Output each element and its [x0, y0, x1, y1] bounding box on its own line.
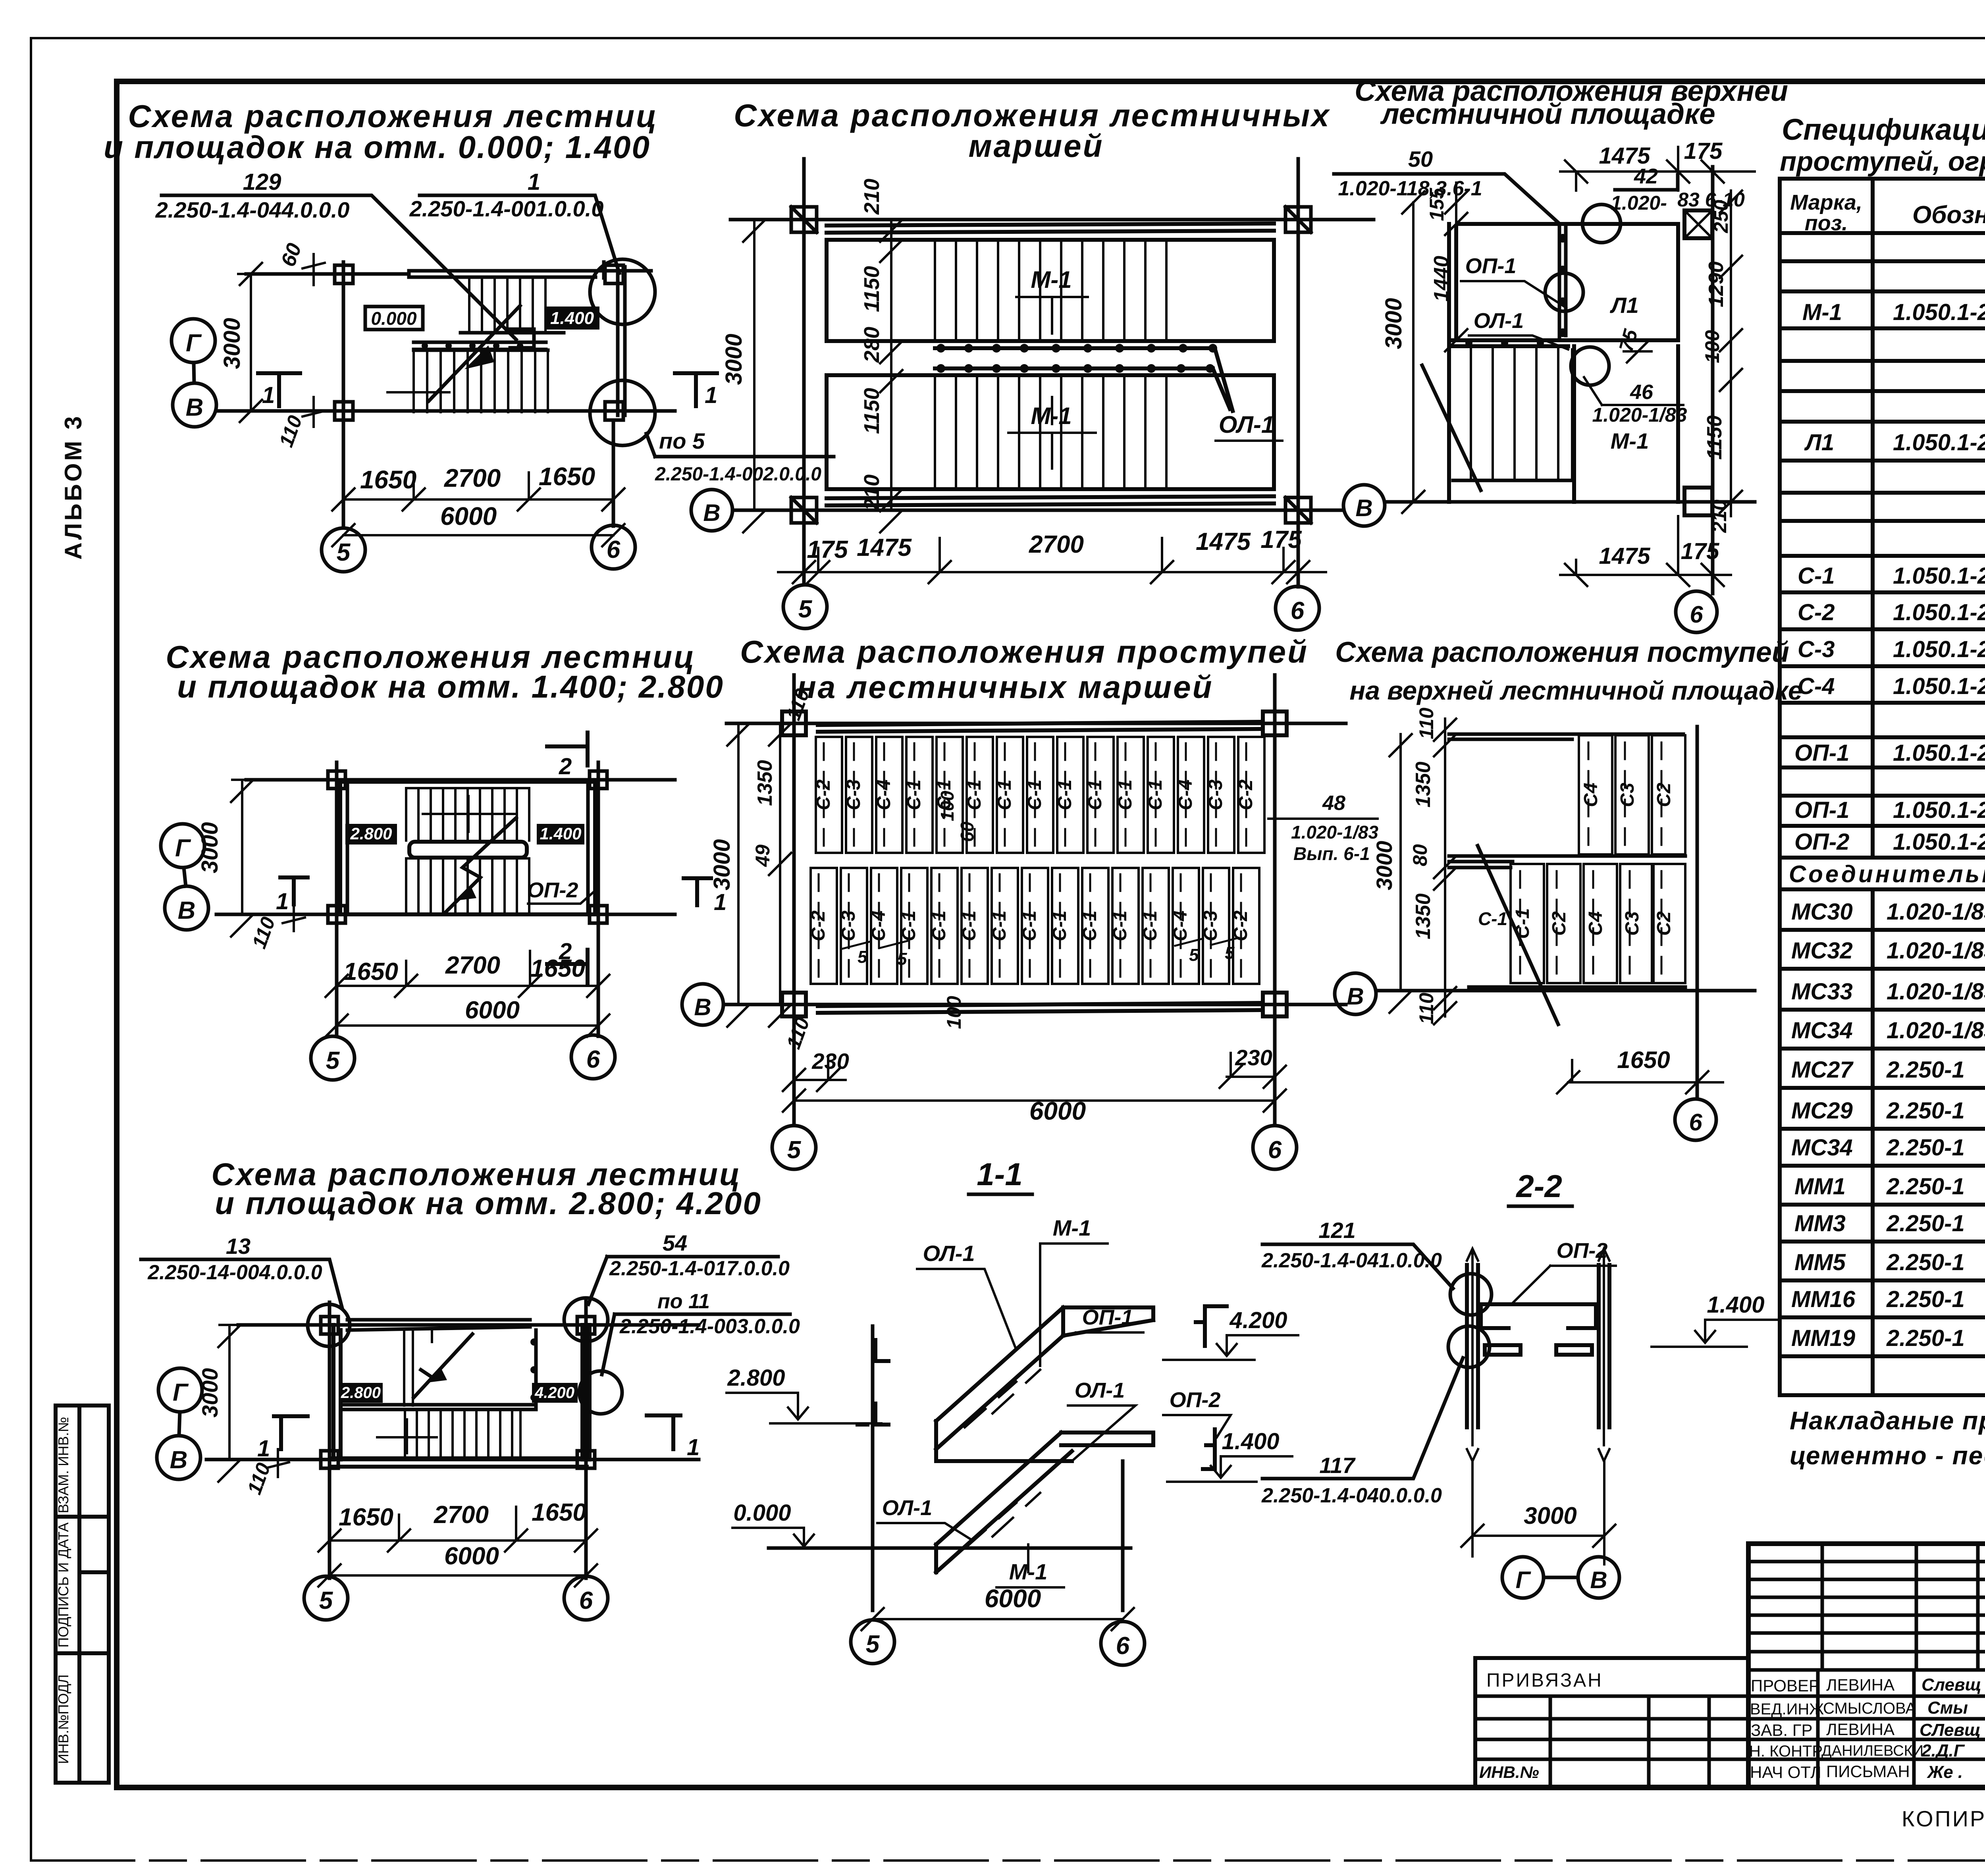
- svg-text:В: В: [1347, 983, 1364, 1010]
- row M-1: [1802, 299, 1985, 325]
- upper march outline: [827, 240, 1274, 341]
- row C-1: [1798, 563, 1985, 589]
- axis G line: [238, 1323, 699, 1327]
- svg-text:С-3: С-3: [1205, 779, 1226, 810]
- stamp top section columns: [1822, 1544, 1985, 1787]
- svg-text:ВЕД.ИНЖ: ВЕД.ИНЖ: [1750, 1701, 1824, 1718]
- svg-text:маршей: маршей: [968, 128, 1104, 164]
- mid landing bracket: [1203, 1429, 1215, 1469]
- column bottom-left: [328, 906, 345, 923]
- column bottom-right: [1684, 488, 1712, 515]
- svg-text:ЛЕВИНА: ЛЕВИНА: [1826, 1720, 1894, 1739]
- axis B vertical: [1711, 167, 1715, 594]
- row MC29: [1791, 1095, 1985, 1124]
- row MC34b: [1791, 1132, 1985, 1161]
- upper arrow diagonal: [414, 1334, 472, 1398]
- svg-text:ОП-2: ОП-2: [1557, 1239, 1608, 1263]
- axis V line: [727, 1003, 1346, 1006]
- axis circle 6: [571, 1035, 615, 1079]
- column bottom-left: [335, 402, 353, 420]
- axis V line: [734, 509, 1344, 512]
- platform inner edge: [1559, 226, 1566, 337]
- svg-text:Г: Г: [1516, 1567, 1532, 1593]
- svg-text:и площадок на отм. 0.000; 1.4: и площадок на отм. 0.000; 1.400: [104, 129, 651, 165]
- svg-text:1650: 1650: [360, 465, 416, 494]
- platform outline: [1449, 224, 1678, 502]
- svg-text:Схема расположения лестниц: Схема расположения лестниц: [128, 98, 658, 134]
- axis 5 vertical: [871, 1326, 875, 1610]
- svg-text:2.250-14-004.0.0.0: 2.250-14-004.0.0.0: [147, 1261, 322, 1284]
- svg-text:1: 1: [528, 169, 540, 195]
- svg-text:С-1: С-1: [898, 910, 919, 941]
- row MM5: [1794, 1247, 1985, 1275]
- left wall inner line: [346, 782, 349, 914]
- column bottom-right: [577, 1451, 595, 1468]
- svg-text:В: В: [694, 994, 711, 1020]
- svg-text:МС29: МС29: [1791, 1098, 1853, 1124]
- axis circle 6: [1675, 1099, 1716, 1140]
- svg-text:210: 210: [860, 179, 884, 215]
- svg-text:5: 5: [1189, 945, 1199, 965]
- axis V line: [1386, 500, 1755, 504]
- svg-text:6000: 6000: [985, 1584, 1041, 1613]
- axis circle G: [161, 824, 204, 868]
- left dim line: [769, 723, 791, 1027]
- svg-text:5: 5: [337, 539, 351, 566]
- axis circle V left: [691, 490, 732, 531]
- svg-text:цементно - песчаного раствора: цементно - песчаного раствора марки 100.: [1790, 1441, 1985, 1470]
- column top-right: [1263, 711, 1287, 735]
- svg-text:1650: 1650: [539, 462, 595, 491]
- axis circle 5: [851, 1620, 894, 1664]
- svg-text:5: 5: [1225, 943, 1235, 963]
- bottom edge: [1469, 985, 1685, 989]
- svg-text:250: 250: [1710, 200, 1732, 233]
- svg-text:ОЛ-1: ОЛ-1: [882, 1496, 932, 1520]
- plan outline: [340, 782, 595, 914]
- svg-text:С-4: С-4: [1170, 910, 1191, 941]
- svg-text:1.020-1/83 Вып.7-1: 1.020-1/83 Вып.7-1: [1887, 938, 1985, 964]
- axis circle G: [158, 1368, 202, 1412]
- left bracket top: [875, 1340, 888, 1361]
- svg-text:С-1: С-1: [1019, 910, 1040, 941]
- upper march planks: [816, 737, 842, 853]
- svg-text:2.250-1: 2.250-1: [1886, 1098, 1965, 1124]
- svg-text:С-1: С-1: [1079, 910, 1100, 941]
- column bottom-right: [1263, 993, 1287, 1016]
- privyazan table: [1475, 1658, 1748, 1787]
- svg-text:1.020-1/83 Вып.7-1: 1.020-1/83 Вып.7-1: [1887, 979, 1985, 1005]
- svg-text:1650: 1650: [532, 1499, 586, 1526]
- svg-text:4.200: 4.200: [534, 1384, 574, 1402]
- svg-text:6000: 6000: [465, 997, 520, 1024]
- top landing slab: [1063, 1307, 1153, 1336]
- column top-left: [321, 1317, 338, 1334]
- lower march treads: [935, 375, 1166, 489]
- svg-text:Схема расположения поступей: Схема расположения поступей: [1335, 636, 1789, 668]
- guard dots on platform: [1465, 234, 1567, 347]
- svg-text:С2: С2: [1654, 783, 1675, 807]
- svg-text:50: 50: [1408, 147, 1433, 172]
- svg-text:210: 210: [860, 474, 884, 511]
- svg-text:80: 80: [1409, 844, 1431, 866]
- svg-text:ОЛ-1: ОЛ-1: [1219, 411, 1274, 438]
- svg-text:Слевщ: Слевщ: [1921, 1675, 1981, 1695]
- axis G line: [246, 272, 409, 276]
- svg-text:1.400: 1.400: [540, 824, 581, 843]
- upper march treads: [935, 240, 1166, 341]
- lower flight treads: [414, 350, 548, 412]
- flight bottom edge: [1453, 479, 1572, 482]
- svg-text:лестничной площадке: лестничной площадке: [1380, 98, 1715, 130]
- signers rows: [1748, 1696, 1985, 1759]
- svg-text:1: 1: [705, 382, 717, 408]
- axis 5 vertical: [328, 1302, 331, 1578]
- upper mid tick lines: [423, 796, 516, 832]
- dim 3000 vertical: [231, 780, 272, 937]
- svg-text:49: 49: [752, 844, 774, 867]
- svg-text:100: 100: [937, 791, 958, 821]
- right dim line: [1720, 191, 1742, 516]
- svg-text:Г: Г: [186, 330, 202, 357]
- column bottom-right: [1285, 494, 1311, 526]
- svg-text:М-1: М-1: [1031, 266, 1072, 293]
- axis G line: [730, 218, 1374, 222]
- svg-text:М-1: М-1: [1611, 428, 1649, 453]
- upper flight slab: [936, 1307, 1063, 1449]
- bottom beam double line: [331, 1458, 587, 1467]
- svg-text:С-1: С-1: [1140, 910, 1161, 941]
- row MM16: [1791, 1284, 1985, 1312]
- svg-text:2-2: 2-2: [1515, 1168, 1562, 1204]
- lower march labels: [808, 910, 1251, 941]
- upper partial flight: [404, 1330, 432, 1406]
- mid landing edges: [414, 342, 546, 349]
- svg-text:М-1: М-1: [1802, 299, 1842, 325]
- mid landing lines: [341, 1405, 536, 1409]
- axis G line: [727, 722, 1346, 725]
- lower plank group: [1511, 864, 1544, 983]
- svg-text:С2: С2: [1654, 911, 1675, 936]
- svg-text:2.250-1: 2.250-1: [1886, 1249, 1965, 1275]
- svg-text:6: 6: [1690, 601, 1703, 628]
- svg-text:1: 1: [257, 1436, 270, 1461]
- svg-text:ОП-1: ОП-1: [1465, 254, 1517, 278]
- svg-text:С-1: С-1: [1054, 779, 1075, 810]
- svg-text:Н. КОНТР: Н. КОНТР: [1749, 1743, 1823, 1760]
- table grid verticals: [1780, 179, 1985, 1395]
- axis 6 vertical: [1297, 159, 1300, 587]
- left dim line: [1445, 183, 1467, 351]
- row MC27: [1791, 1055, 1985, 1083]
- svg-text:В: В: [186, 394, 204, 421]
- svg-text:1350: 1350: [1412, 762, 1435, 808]
- column top-right: [577, 1317, 595, 1334]
- svg-text:1.020-: 1.020-: [1611, 192, 1667, 214]
- axis circle 5: [322, 528, 365, 572]
- upper flight dashes: [965, 1370, 1040, 1427]
- svg-text:6: 6: [579, 1587, 593, 1614]
- treads lower: [406, 858, 529, 913]
- svg-text:МС30: МС30: [1791, 899, 1853, 925]
- svg-text:С-1: С-1: [1024, 779, 1045, 810]
- level label 1.400: [545, 307, 599, 330]
- axis V line: [216, 913, 675, 916]
- svg-text:С-2: С-2: [813, 779, 834, 810]
- svg-text:2.250-1: 2.250-1: [1886, 1135, 1965, 1161]
- svg-text:2.250-1.4-002.0.0.0: 2.250-1.4-002.0.0.0: [655, 464, 821, 485]
- section mark 1 left: [258, 373, 300, 406]
- axis circle V: [157, 1436, 200, 1479]
- svg-text:С-2: С-2: [1230, 910, 1251, 941]
- row MM3: [1794, 1208, 1985, 1236]
- stamp outer: [1748, 1544, 1985, 1787]
- treads upper: [406, 788, 529, 841]
- svg-text:1.050.1-2: 1.050.1-2: [1893, 673, 1985, 699]
- svg-text:ПОДПИСЬ И ДАТА: ПОДПИСЬ И ДАТА: [55, 1522, 71, 1647]
- svg-text:60: 60: [957, 821, 977, 842]
- svg-text:С-1: С-1: [1512, 908, 1533, 939]
- column top-left: [782, 711, 806, 735]
- axis 6 vertical: [604, 262, 613, 526]
- svg-text:1475: 1475: [1599, 143, 1650, 169]
- lower march planks: [811, 868, 837, 984]
- svg-text:1.400: 1.400: [1707, 1292, 1764, 1318]
- handrail end loop: [510, 329, 534, 348]
- top floor edge line: [827, 224, 1274, 233]
- svg-text:Накладаные проступи укладыва: Накладаные проступи укладываются по слою: [1790, 1406, 1985, 1435]
- svg-text:121: 121: [1318, 1218, 1355, 1243]
- svg-text:2.250-1: 2.250-1: [1886, 1211, 1965, 1236]
- axis circle connector: [179, 1412, 180, 1436]
- svg-text:С-4: С-4: [873, 779, 894, 810]
- svg-text:С3: С3: [1622, 911, 1643, 936]
- axis circle V: [173, 383, 216, 427]
- svg-text:3000: 3000: [1372, 841, 1397, 891]
- column bottom-right: [590, 906, 607, 923]
- svg-text:6000: 6000: [444, 1542, 499, 1570]
- bottom dim line: [1560, 516, 1731, 586]
- svg-text:ОЛ-1: ОЛ-1: [1474, 309, 1524, 333]
- axis circle 6: [1253, 1126, 1297, 1169]
- column top-right: [590, 771, 607, 789]
- right post arrows: [1599, 1249, 1609, 1461]
- svg-text:В: В: [703, 499, 720, 526]
- outer border bottom dashed: [31, 1859, 1985, 1862]
- lower plank labels: [1512, 908, 1675, 939]
- svg-text:175: 175: [1684, 138, 1723, 164]
- svg-text:230: 230: [811, 1049, 849, 1074]
- axis circle 5: [783, 585, 827, 629]
- svg-text:1475: 1475: [857, 534, 912, 561]
- svg-text:ЗАВ. ГР: ЗАВ. ГР: [1751, 1721, 1813, 1739]
- svg-text:3000: 3000: [197, 822, 223, 873]
- svg-text:С-1: С-1: [1478, 908, 1507, 929]
- top floor edge: [818, 722, 1262, 732]
- railing dots row1: [937, 344, 1217, 353]
- svg-text:1.020-1/83 Вып.7-1: 1.020-1/83 Вып.7-1: [1887, 1018, 1985, 1043]
- svg-text:на лестничных маршей: на лестничных маршей: [797, 669, 1213, 705]
- left margin stamp boxes: [56, 1406, 109, 1783]
- axis circle V: [165, 886, 208, 930]
- svg-text:СМЫСЛОВА: СМЫСЛОВА: [1823, 1700, 1916, 1717]
- svg-text:110: 110: [1415, 708, 1438, 739]
- row OP-1 OP12: [1794, 797, 1985, 823]
- svg-text:1.050.1-2: 1.050.1-2: [1893, 430, 1985, 455]
- detail circle lower: [1448, 1326, 1490, 1367]
- svg-text:С-1: С-1: [994, 779, 1015, 810]
- right wall inner line: [586, 782, 590, 914]
- svg-text:3000: 3000: [721, 334, 747, 385]
- svg-text:2700: 2700: [444, 464, 501, 492]
- svg-text:ММ19: ММ19: [1791, 1325, 1855, 1351]
- axis circle 5: [772, 1126, 816, 1169]
- svg-text:13: 13: [226, 1234, 251, 1259]
- svg-text:МС34: МС34: [1791, 1135, 1853, 1161]
- svg-text:0.000: 0.000: [733, 1500, 791, 1526]
- row C-2: [1798, 600, 1985, 625]
- svg-text:ПРОВЕР: ПРОВЕР: [1751, 1676, 1820, 1695]
- svg-text:Г: Г: [175, 835, 191, 862]
- svg-text:1.050.1-2: 1.050.1-2: [1893, 797, 1985, 823]
- svg-text:5: 5: [787, 1136, 802, 1164]
- svg-text:СЛевщ: СЛевщ: [1919, 1720, 1981, 1740]
- svg-text:6: 6: [1268, 1136, 1282, 1164]
- row C-3: [1798, 636, 1985, 662]
- section mark 2 bottom: [547, 950, 588, 983]
- svg-text:С3: С3: [1617, 783, 1638, 807]
- svg-text:по 11: по 11: [657, 1290, 710, 1313]
- svg-text:1-1: 1-1: [977, 1157, 1023, 1192]
- axis 6 vertical: [584, 1298, 588, 1578]
- svg-text:Смы: Смы: [1927, 1698, 1968, 1718]
- svg-text:2.800: 2.800: [350, 824, 392, 843]
- section mark 2 top: [547, 733, 588, 765]
- svg-text:С-1: С-1: [904, 779, 925, 810]
- ground line: [769, 1546, 1131, 1550]
- svg-text:3000: 3000: [219, 318, 245, 369]
- svg-text:129: 129: [243, 169, 281, 195]
- level label 1.400: [537, 824, 584, 844]
- inner right wall line: [534, 1330, 538, 1407]
- svg-text:1475: 1475: [1599, 543, 1650, 569]
- section mark 1 left: [274, 1416, 308, 1449]
- dim 3000 left: [727, 723, 750, 1027]
- axis B vertical: [1696, 727, 1699, 1098]
- column top-right with detail circle: [605, 265, 623, 283]
- svg-text:2700: 2700: [1029, 531, 1084, 558]
- svg-text:1.050.1-2: 1.050.1-2: [1893, 600, 1985, 625]
- axis circle 6: [564, 1576, 608, 1620]
- slab: [1481, 1304, 1596, 1328]
- svg-text:6: 6: [1689, 1109, 1702, 1136]
- svg-text:54: 54: [663, 1230, 687, 1255]
- svg-text:С-1: С-1: [1110, 910, 1131, 941]
- svg-text:1: 1: [262, 382, 275, 408]
- section mark 1 right: [647, 1415, 680, 1449]
- axis V line: [216, 409, 675, 413]
- svg-text:ОЛ-1: ОЛ-1: [923, 1241, 975, 1266]
- svg-text:1.020-1/83 Вып.7-1: 1.020-1/83 Вып.7-1: [1887, 899, 1985, 925]
- svg-text:1.050.1-2: 1.050.1-2: [1893, 299, 1985, 325]
- table grid horizontals: [1780, 179, 1985, 1395]
- svg-text:С-1: С-1: [1145, 779, 1166, 810]
- axis circle connector: [194, 362, 194, 383]
- svg-text:Схема расположения лестничных: Схема расположения лестничных: [734, 98, 1330, 133]
- axis V line: [206, 1458, 699, 1461]
- svg-text:210: 210: [1708, 499, 1731, 533]
- signatures: [1919, 1675, 1981, 1782]
- axis circle 5: [311, 1036, 355, 1080]
- svg-text:1150: 1150: [1703, 415, 1726, 460]
- axis circle V: [1578, 1557, 1619, 1598]
- svg-text:1: 1: [714, 889, 727, 915]
- dots right wall: [530, 1338, 538, 1401]
- row OP-1 OM14: [1794, 738, 1985, 766]
- svg-text:2.250-1.4-017.0.0.0: 2.250-1.4-017.0.0.0: [609, 1257, 790, 1280]
- svg-text:ММ3: ММ3: [1794, 1211, 1846, 1236]
- axis circle 6: [1676, 591, 1717, 632]
- svg-text:Вып. 6-1: Вып. 6-1: [1293, 843, 1370, 864]
- svg-text:МС32: МС32: [1791, 938, 1853, 964]
- svg-text:1.020-1/83: 1.020-1/83: [1291, 822, 1378, 843]
- axis circle 6: [1101, 1621, 1145, 1665]
- svg-text:1.400: 1.400: [550, 308, 594, 328]
- svg-text:и площадок на отм. 2.800; 4.2: и площадок на отм. 2.800; 4.200: [215, 1186, 762, 1221]
- svg-text:С-1: С-1: [1798, 563, 1835, 589]
- svg-text:1150: 1150: [860, 388, 884, 434]
- svg-text:48: 48: [1322, 792, 1345, 815]
- axis G line: [246, 778, 675, 782]
- detail circle top-left: [308, 1304, 350, 1346]
- upper flight treads: [469, 278, 545, 333]
- mid landing dots: [422, 343, 523, 349]
- svg-text:Соединительные элементы лест: Соединительные элементы лестницы: [1789, 861, 1985, 887]
- circle connector: [1544, 1576, 1578, 1579]
- column top-right: [1282, 204, 1314, 235]
- svg-text:2.250-1: 2.250-1: [1886, 1286, 1965, 1312]
- svg-text:С-3: С-3: [843, 779, 864, 810]
- detail circle right-mid: [579, 1371, 622, 1414]
- svg-text:ОП-2: ОП-2: [1794, 829, 1849, 855]
- upper plank labels: [1580, 783, 1675, 807]
- svg-text:2.250-1.4-041.0.0.0: 2.250-1.4-041.0.0.0: [1261, 1249, 1442, 1272]
- row MC33: [1791, 976, 1985, 1005]
- svg-text:175: 175: [1260, 526, 1302, 553]
- axis 6 vertical: [1273, 675, 1277, 1126]
- top landing bracket: [1196, 1306, 1227, 1346]
- svg-text:Же .: Же .: [1927, 1762, 1963, 1782]
- svg-text:проступей, ограждений и соедин: проступей, ограждений и соединительных д…: [1780, 146, 1985, 177]
- axis 5 vertical: [342, 262, 345, 528]
- flight right edge: [1574, 346, 1678, 502]
- dim 3000 left: [1389, 734, 1412, 1013]
- section mark 1 right: [675, 373, 717, 406]
- svg-text:ММ16: ММ16: [1791, 1286, 1856, 1312]
- detail circle mid: [1545, 273, 1583, 311]
- svg-text:1350: 1350: [1412, 893, 1435, 939]
- svg-text:Обозначение: Обозначение: [1912, 201, 1985, 229]
- column bottom-left: [791, 494, 817, 526]
- left post: [1467, 1265, 1478, 1427]
- upper flight bottom edge: [461, 331, 564, 335]
- axis circle 6: [592, 525, 635, 569]
- svg-text:6: 6: [1291, 597, 1305, 625]
- svg-text:1: 1: [687, 1434, 700, 1460]
- svg-text:1.050.1-2: 1.050.1-2: [1893, 563, 1985, 589]
- svg-text:Схема расположения проступей: Схема расположения проступей: [740, 634, 1309, 669]
- axis 5 vertical: [792, 675, 796, 1126]
